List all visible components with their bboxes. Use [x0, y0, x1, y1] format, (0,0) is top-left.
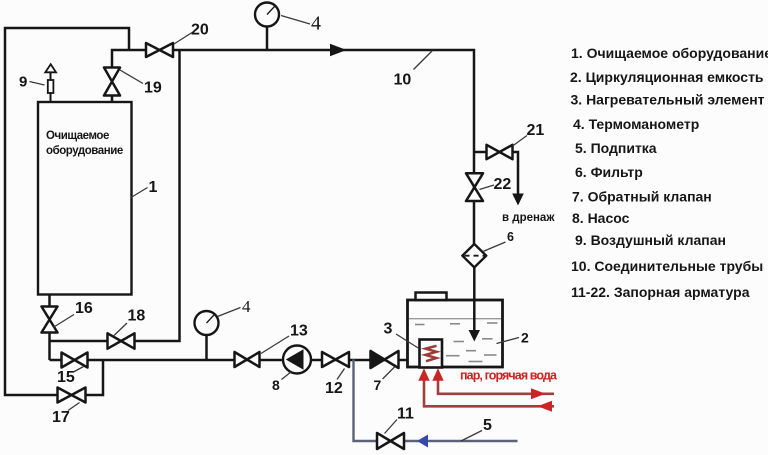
- valve 21 (horizontal): [487, 145, 513, 159]
- flow arrow on top line: [330, 44, 347, 56]
- svg-text:5. Подпитка: 5. Подпитка: [575, 140, 657, 156]
- valve 13 (horizontal): [235, 352, 260, 367]
- valve 15 (horizontal): [62, 353, 88, 368]
- svg-text:16: 16: [75, 300, 93, 317]
- red steam/hot water lines: [424, 380, 554, 407]
- red up arrow 2: [432, 368, 443, 381]
- wire: valve 21 drain branch: [474, 152, 518, 195]
- valve 19 (vertical): [104, 68, 120, 96]
- svg-text:11-22. Запорная арматура: 11-22. Запорная арматура: [571, 284, 750, 300]
- svg-text:21: 21: [527, 122, 545, 139]
- svg-text:10: 10: [394, 72, 412, 89]
- wire: outer bypass loop left: [5, 28, 129, 395]
- svg-text:5: 5: [483, 417, 492, 434]
- red up arrow 1: [418, 368, 429, 381]
- svg-text:7: 7: [374, 377, 382, 393]
- wire: right vertical below filter into tank: [473, 266, 476, 331]
- svg-text:8. Насос: 8. Насос: [572, 210, 630, 226]
- valve 16 (vertical): [42, 307, 58, 333]
- thermomanometer 4 (top): [255, 3, 279, 27]
- manometer 4 (bottom): [195, 311, 219, 335]
- valve 11 (horizontal, on blue line): [377, 433, 404, 449]
- svg-text:9: 9: [19, 74, 27, 91]
- blue make-up water line: [354, 360, 518, 442]
- svg-text:18: 18: [128, 308, 146, 325]
- wire: middle riser down and left line with valve 18: [50, 50, 180, 341]
- svg-text:15: 15: [57, 369, 75, 386]
- svg-text:1. Очищаемое оборудование: 1. Очищаемое оборудование: [571, 45, 768, 61]
- svg-text:9. Воздушный клапан: 9. Воздушный клапан: [575, 232, 726, 248]
- pump 8: [283, 346, 311, 374]
- svg-text:оборудование: оборудование: [46, 145, 123, 157]
- blue left arrow: [417, 435, 428, 448]
- svg-text:7. Обратный клапан: 7. Обратный клапан: [572, 189, 712, 205]
- svg-text:4: 4: [242, 297, 251, 316]
- svg-text:13: 13: [290, 323, 308, 340]
- svg-text:4. Термоманометр: 4. Термоманометр: [573, 116, 699, 132]
- svg-text:6: 6: [507, 230, 514, 244]
- svg-text:Очищаемое: Очищаемое: [46, 130, 109, 142]
- legend: [570, 45, 768, 300]
- heating element 3: [420, 340, 443, 368]
- svg-text:4: 4: [311, 13, 321, 35]
- valve 20 (horizontal): [146, 43, 173, 57]
- water dashes: [415, 323, 498, 362]
- svg-text:12: 12: [325, 380, 343, 397]
- equipment box 1: [38, 102, 132, 295]
- svg-text:пар, горячая вода: пар, горячая вода: [460, 369, 558, 383]
- drain arrow: [512, 194, 524, 206]
- check valve 7: [371, 351, 399, 368]
- wire: valve16 drop from equipment bottom to main line: [48, 295, 51, 361]
- svg-text:1: 1: [149, 179, 158, 196]
- svg-text:3. Нагревательный элемент: 3. Нагревательный элемент: [571, 92, 765, 108]
- svg-text:20: 20: [191, 22, 209, 39]
- svg-text:3: 3: [384, 321, 393, 338]
- wire: main bottom line to tank: [50, 359, 409, 362]
- number labels: [19, 22, 544, 435]
- serif 4 labels: [242, 13, 321, 317]
- svg-text:19: 19: [144, 80, 162, 97]
- valve 17 (horizontal): [58, 388, 86, 403]
- red left arrow on lower line: [538, 401, 553, 412]
- svg-text:2. Циркуляционная емкость: 2. Циркуляционная емкость: [570, 69, 764, 85]
- leader lines: [30, 16, 528, 442]
- valve 12 (horizontal): [322, 352, 349, 367]
- pipe into tank with down arrow: [469, 300, 480, 342]
- svg-text:10. Соединительные трубы: 10. Соединительные трубы: [571, 258, 763, 274]
- svg-text:2: 2: [521, 330, 529, 346]
- red right arrow on upper line: [531, 388, 546, 399]
- valve 18 (horizontal): [108, 333, 135, 348]
- svg-text:в дренаж: в дренаж: [502, 212, 555, 224]
- svg-text:6. Фильтр: 6. Фильтр: [575, 164, 643, 180]
- wire: air valve stems: [50, 72, 52, 103]
- wire: riser from equipment top through valve 19 to top line, top line to right corner, down to tank branch: [112, 50, 474, 245]
- svg-text:8: 8: [272, 377, 280, 393]
- svg-text:17: 17: [52, 409, 70, 426]
- svg-text:11: 11: [397, 406, 414, 423]
- air valve 9: [45, 64, 56, 93]
- filter 6 (diamond): [462, 244, 486, 267]
- svg-text:22: 22: [494, 176, 512, 193]
- circulation tank 2: [408, 293, 503, 368]
- valve 22 (vertical): [466, 173, 483, 201]
- wire: gauge stems: [207, 26, 268, 360]
